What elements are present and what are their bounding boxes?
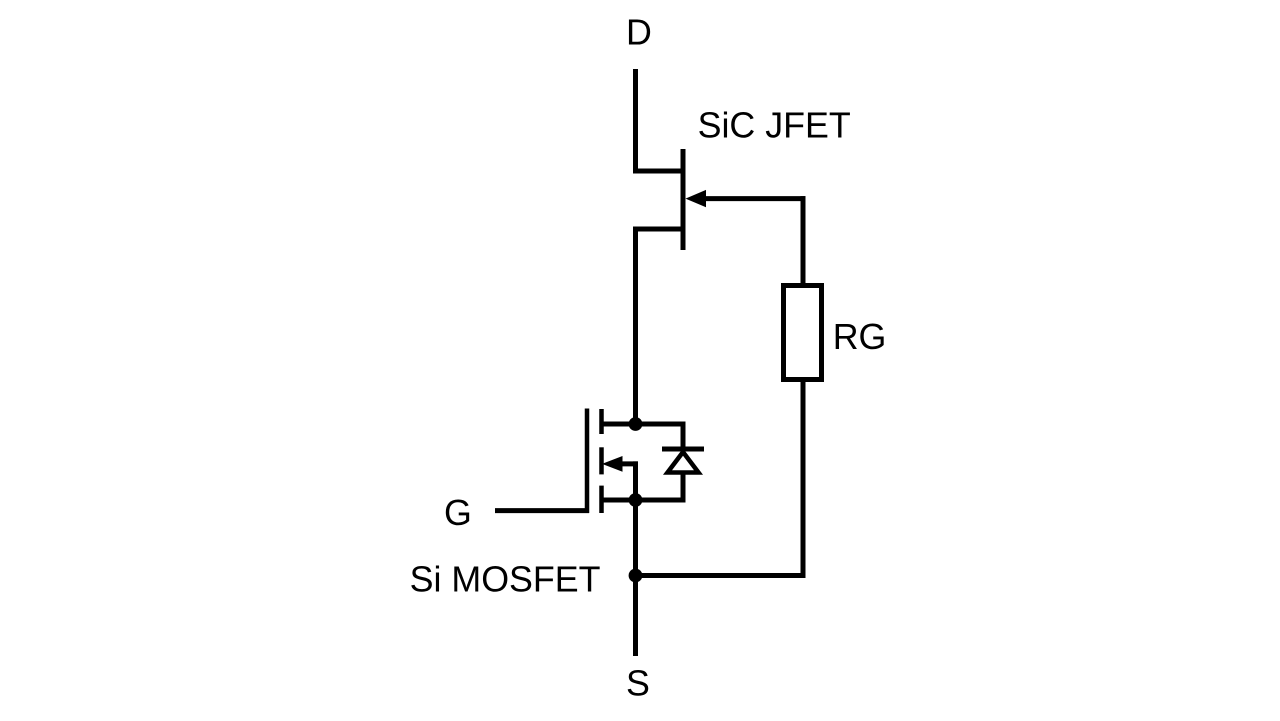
MOSFET channel dash 2 — [599, 447, 604, 474]
transistor JFET: channel bar — [681, 149, 686, 250]
wire: JFET gate arrow line — [704, 196, 806, 201]
MOSFET channel dash 3 — [599, 486, 604, 513]
wire: diode bottom vertical — [681, 473, 686, 503]
diode cathode bar — [662, 447, 704, 452]
wire: gate lead from G — [495, 508, 589, 513]
svg-text:D: D — [626, 13, 652, 53]
svg-text:Si MOSFET: Si MOSFET — [410, 559, 601, 599]
junction node: bottom source/RG junction — [629, 569, 643, 583]
wire: JFET source horizontal — [633, 227, 683, 232]
wire: resistor bottom vertical — [801, 380, 806, 578]
wire: right branch vertical to resistor — [801, 196, 806, 285]
MOSFET body arrowhead — [602, 456, 623, 472]
svg-text:S: S — [626, 663, 650, 703]
svg-text:RG: RG — [833, 317, 887, 357]
transistor MOSFET: gate bar — [585, 409, 590, 514]
wire: bottom horizontal from RG branch to source node — [636, 573, 806, 578]
wire: MOSFET drain horizontal to diode branch — [602, 422, 686, 427]
wire: diode top vertical — [681, 422, 686, 449]
diode triangle — [668, 452, 699, 473]
wire: MOSFET source horizontal to diode branch — [602, 498, 686, 503]
wire: D lead down to JFET drain — [633, 69, 638, 174]
wire: left vertical from JFET source to MOSFET drain node — [633, 227, 638, 425]
wire: MOSFET body vertical to source node — [633, 461, 638, 500]
junction node: MOSFET source — [629, 493, 643, 507]
JFET gate arrowhead — [686, 190, 707, 207]
MOSFET body arrow line — [620, 461, 638, 466]
resistor RG — [784, 286, 822, 380]
wire: JFET drain horizontal — [633, 169, 683, 174]
MOSFET channel dash 1 — [599, 409, 604, 434]
svg-text:SiC JFET: SiC JFET — [698, 105, 851, 145]
svg-text:G: G — [444, 493, 472, 533]
wire: source vertical down to S — [633, 500, 638, 656]
junction node: MOSFET drain — [629, 417, 643, 431]
